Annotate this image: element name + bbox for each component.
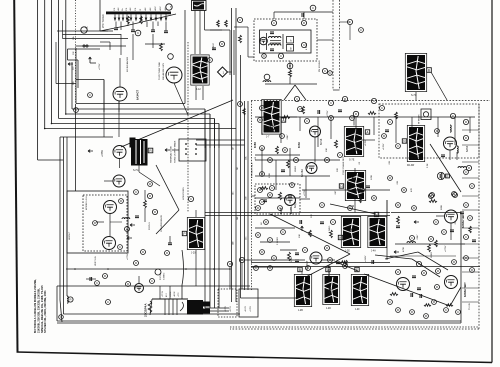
svg-text:R: R: [397, 308, 399, 312]
label text: [455, 221, 457, 225]
value circle: [118, 245, 123, 250]
svg-text:C: C: [273, 256, 275, 260]
value circle: [342, 96, 347, 101]
svg-text:TS-915: TS-915: [469, 302, 471, 310]
svg-text:TERMINAL GUIDE: TERMINAL GUIDE: [170, 145, 173, 163]
svg-text:R: R: [142, 250, 144, 254]
svg-text:HORIZ OUTPUT TRANS: HORIZ OUTPUT TRANS: [174, 140, 177, 163]
sound output transformer T4: [405, 53, 426, 97]
svg-text:C: C: [389, 120, 391, 124]
wire mid h: [205, 213, 390, 216]
vert text deflection: [183, 186, 185, 200]
svg-text:120K: 120K: [371, 174, 373, 180]
svg-text:C: C: [107, 300, 109, 304]
terminal labels: [225, 305, 252, 312]
value circle: [270, 126, 275, 131]
label text: [389, 160, 391, 165]
wire top4: [205, 29, 223, 31]
value circle: [294, 158, 299, 163]
value circle: [134, 190, 139, 195]
cap C70: [135, 216, 172, 245]
tube V1 damper: [113, 87, 140, 101]
resistor R101: [217, 20, 220, 27]
tuner drop wires: [116, 22, 166, 32]
wire mid v2b: [240, 55, 242, 298]
value circle: [422, 271, 427, 276]
audio box outer: [67, 191, 128, 253]
sound out box: [255, 184, 300, 214]
wire top1: [230, 30, 234, 75]
wire top3: [248, 27, 254, 57]
value circle: [256, 206, 261, 211]
diag br2: [450, 287, 461, 306]
core lines: [270, 41, 281, 44]
wire bus v2: [44, 0, 46, 129]
svg-text:R: R: [344, 97, 346, 101]
svg-text:+135V: +135V: [383, 143, 385, 150]
tube V17 crt heater: [135, 284, 144, 293]
value circle: [434, 220, 439, 225]
tube V9 6AQ5: [285, 195, 298, 209]
vert text model: [86, 196, 88, 210]
value circle: [260, 200, 265, 205]
svg-text:120K: 120K: [269, 172, 271, 178]
wire hbus4: [52, 124, 220, 149]
svg-text:C: C: [349, 206, 351, 210]
svg-text:R: R: [259, 118, 261, 122]
svg-text:680K: 680K: [441, 204, 443, 210]
wire yoke bus: [241, 260, 297, 298]
IF transformer T3: [191, 55, 209, 91]
label text: [95, 256, 97, 266]
terminal box: [298, 267, 302, 272]
wire vert right2: [386, 200, 388, 212]
label text: [365, 255, 367, 262]
value circle: [416, 261, 421, 266]
value circle: [301, 20, 306, 25]
coil L20: [67, 296, 68, 303]
vert text horiz trans: [170, 140, 177, 163]
value circle: [322, 68, 327, 73]
value circle: [328, 71, 333, 76]
wire y34: [63, 34, 122, 36]
tube V14: [397, 278, 410, 291]
coil L12: [407, 242, 415, 243]
svg-text:C: C: [339, 153, 341, 157]
svg-text:C: C: [435, 220, 437, 224]
svg-text:C: C: [445, 308, 447, 312]
terminal box B: [427, 68, 432, 73]
transformer T6: [344, 126, 363, 161]
wire bus v3: [51, 0, 53, 124]
resistor R61: [390, 293, 398, 296]
label text: [291, 256, 293, 262]
svg-text:+135V: +135V: [250, 305, 252, 312]
wire drop: [355, 117, 357, 151]
misc res: [330, 216, 400, 268]
value circle: [148, 182, 153, 187]
value circle: [388, 300, 393, 305]
value circle: [134, 261, 139, 266]
svg-text:470K: 470K: [264, 124, 266, 130]
page border right: [491, 0, 493, 363]
value circle: [396, 308, 401, 313]
vert text models: [469, 302, 471, 310]
svg-text:S-7E: S-7E: [349, 159, 355, 162]
wire h170: [255, 175, 330, 177]
value circle: [464, 203, 469, 208]
svg-text:R: R: [166, 251, 168, 255]
value circle: [464, 235, 469, 240]
value circle: [278, 206, 283, 211]
width coil T15: [130, 138, 148, 173]
svg-text:C: C: [280, 54, 282, 58]
svg-text:10K: 10K: [299, 234, 301, 238]
bus row y112: [255, 116, 475, 118]
value circle: [435, 285, 440, 290]
wire left low: [44, 129, 46, 181]
diag br1: [336, 262, 450, 306]
value circle: [328, 100, 333, 105]
svg-text:P: P: [183, 232, 185, 236]
wire drop: [330, 117, 332, 139]
svg-text:3 PRONG INLK: 3 PRONG INLK: [252, 162, 254, 178]
svg-text:C: C: [329, 71, 331, 75]
tube V4 sound: [260, 37, 268, 45]
value circle: [88, 93, 93, 98]
crt pin labels: [162, 290, 180, 297]
small box: [421, 109, 431, 120]
label text: [365, 139, 367, 146]
svg-text:C: C: [137, 31, 139, 35]
svg-text:J-20: J-20: [191, 253, 196, 255]
svg-text:241: 241: [237, 167, 239, 170]
tuner box: [100, 0, 108, 31]
svg-text:4.5 MC: 4.5 MC: [306, 43, 308, 50]
wire sync: [255, 155, 300, 242]
vert text FM: [319, 60, 321, 72]
wire stub right: [462, 257, 479, 259]
resistor R40: [279, 192, 282, 200]
svg-text:21CBP4A: 21CBP4A: [144, 303, 148, 317]
tube V8 6AB4: [444, 137, 470, 152]
svg-text:SPECIAL, DELUXE 10L, 21D8, TS-: SPECIAL, DELUXE 10L, 21D8, TS-915: [40, 285, 44, 333]
svg-text:6CS6: 6CS6: [299, 142, 301, 148]
value circle: [463, 135, 468, 140]
inner solid box corner: [57, 213, 461, 324]
svg-text:R: R: [389, 176, 391, 180]
svg-text:C: C: [332, 220, 334, 224]
wire top2: [210, 27, 248, 30]
svg-text:6AW8A VERT: 6AW8A VERT: [464, 282, 467, 297]
value circle: [350, 116, 355, 121]
svg-text:+27.5V: +27.5V: [162, 290, 164, 297]
transformer T8 vert out: [345, 170, 365, 208]
label text: [255, 156, 257, 160]
value circle: [456, 310, 461, 315]
crt section box: [57, 286, 250, 321]
value circle: [294, 96, 299, 101]
resistor R31: [282, 116, 290, 119]
wire crt drops: [205, 308, 229, 311]
value circle: [306, 266, 311, 271]
value circle: [301, 42, 306, 47]
svg-text:+410V: +410V: [245, 305, 247, 312]
arrow gnd: [127, 224, 135, 240]
cap C33: [338, 110, 342, 112]
svg-text:J-2F: J-2F: [355, 309, 360, 311]
vert text crt type: [144, 303, 148, 317]
page border left: [14, 0, 17, 352]
diag br4: [375, 255, 440, 277]
value circle: [452, 192, 457, 197]
svg-text:R: R: [265, 220, 267, 224]
svg-text:C: C: [452, 114, 454, 118]
wire h267: [251, 266, 296, 268]
value circle: [396, 144, 401, 149]
svg-text:2.2MEG: 2.2MEG: [277, 237, 279, 245]
wire bus dotted: [75, 0, 77, 104]
value circle: [283, 148, 288, 153]
wire T8: [354, 168, 356, 213]
label 6au8: [290, 206, 293, 214]
svg-text:6CB6: 6CB6: [255, 141, 257, 148]
quadrature coil L5: [267, 33, 284, 50]
svg-text:C: C: [60, 315, 62, 319]
svg-text:6AW8A VERT: 6AW8A VERT: [462, 213, 465, 228]
svg-text:R: R: [465, 136, 467, 140]
wire v drops2: [262, 148, 306, 198]
svg-text:150K: 150K: [291, 256, 293, 262]
wire cluster: [145, 190, 170, 243]
value circle: [260, 146, 265, 151]
wire mid dashed: [251, 101, 253, 290]
vert text wtrans: [418, 114, 421, 124]
cap C90b: [263, 170, 292, 202]
tube V7: [301, 163, 317, 178]
svg-text:.0047: .0047: [287, 134, 289, 140]
svg-text:R2-3W: R2-3W: [407, 165, 415, 167]
svg-text:R: R: [257, 206, 259, 210]
wire stub right: [462, 227, 479, 229]
svg-text:C: C: [282, 230, 284, 234]
wire hbus6: [38, 159, 63, 161]
label text: [99, 63, 101, 70]
svg-text:C: C: [418, 262, 420, 266]
svg-text:+275V: +275V: [101, 150, 104, 157]
svg-text:R: R: [430, 237, 432, 241]
svg-text:C: C: [263, 54, 265, 58]
svg-text:VERT LIN: VERT LIN: [95, 256, 97, 266]
svg-text:W TRANS: W TRANS: [418, 114, 421, 124]
value circle: [68, 297, 73, 302]
value circle: [270, 186, 275, 191]
value circle: [463, 119, 468, 124]
value circle: [280, 134, 285, 139]
tuner coil contacts: [114, 14, 168, 21]
value circle: [464, 170, 469, 175]
svg-text:C: C: [151, 279, 153, 283]
sound IF inner box: [260, 30, 312, 53]
value circle: [402, 188, 407, 193]
svg-text:R: R: [303, 21, 305, 25]
resistor R91: [287, 160, 290, 168]
value circle: [264, 220, 269, 225]
wire stub right: [462, 177, 479, 179]
misc arrows: [301, 221, 419, 293]
tube V16: [103, 237, 116, 250]
svg-text:C: C: [209, 58, 211, 62]
label text: [335, 190, 337, 195]
cap C22: [302, 13, 304, 17]
svg-text:R: R: [413, 206, 415, 210]
svg-text:C: C: [330, 101, 332, 105]
svg-text:B: B: [428, 68, 430, 72]
cap C90: [86, 277, 96, 281]
svg-text:R: R: [269, 193, 271, 197]
misc res2: [424, 226, 471, 306]
svg-text:R: R: [149, 194, 151, 198]
value circle: [272, 256, 277, 261]
svg-text:22K: 22K: [311, 214, 313, 218]
terminal box: [339, 184, 343, 189]
wire br row: [395, 243, 465, 245]
resistor R20: [289, 70, 292, 77]
wire T6: [354, 117, 375, 140]
svg-text:J-2D: J-2D: [326, 308, 331, 310]
svg-text:C: C: [135, 190, 137, 194]
value circle: [432, 300, 437, 305]
flag diamond 1: [218, 67, 232, 77]
circle R variable: [437, 172, 449, 179]
focus control: [155, 269, 166, 280]
page border bottom: [17, 352, 493, 363]
wire drop: [373, 117, 375, 135]
misc caps2: [420, 212, 476, 298]
terminal box: [326, 267, 330, 272]
wire drop: [437, 117, 439, 137]
svg-text:+275V: +275V: [99, 63, 101, 70]
terminal box: [281, 118, 285, 123]
label text: [417, 234, 419, 240]
resistor R33: [302, 106, 305, 114]
resistor R60: [428, 244, 431, 252]
wire sound right: [317, 40, 340, 90]
value circle: [310, 5, 316, 11]
sound IF dashed box: [254, 19, 317, 61]
crt neck top: [150, 299, 188, 315]
wire mid v2: [235, 8, 237, 302]
svg-text:6AU8A: 6AU8A: [290, 206, 293, 214]
wire stub right: [462, 129, 479, 131]
junction dots: [44, 113, 67, 129]
value circle: [382, 134, 387, 139]
title text line2: [36, 288, 40, 333]
misc caps3: [300, 178, 370, 224]
value circle: [305, 119, 310, 124]
title text line1: [33, 279, 37, 333]
svg-text:47K: 47K: [411, 188, 413, 192]
terminal box solid: [239, 289, 258, 317]
value circle: [126, 282, 131, 287]
wire mid v7: [214, 119, 216, 309]
label text: [269, 172, 271, 178]
value circle: [147, 193, 152, 198]
wire hbus5: [45, 128, 236, 130]
svg-text:HEIGHT: HEIGHT: [69, 231, 71, 240]
svg-text:FOCUS: FOCUS: [160, 272, 162, 280]
wire stub right: [462, 243, 479, 245]
svg-text:C: C: [190, 197, 192, 201]
label text: [213, 43, 215, 50]
diagonal to yoke: [330, 204, 376, 214]
value circle: [268, 266, 273, 271]
svg-text:C: C: [324, 69, 326, 73]
resistor R70: [144, 200, 147, 208]
wire tuner down: [121, 34, 153, 60]
resistor R34: [335, 140, 338, 148]
svg-text:6CS6: 6CS6: [320, 138, 323, 145]
svg-text:+27V: +27V: [178, 292, 180, 297]
wire sound right dashed: [333, 0, 340, 90]
trim cap boxes: [287, 37, 294, 52]
svg-text:1MEG: 1MEG: [431, 252, 433, 258]
svg-text:6AQ5: 6AQ5: [280, 207, 283, 214]
coil L6: [263, 74, 271, 82]
svg-text:R: R: [383, 134, 385, 138]
value circle: [74, 108, 79, 113]
svg-text:R: R: [361, 188, 363, 192]
svg-text:M: M: [375, 213, 378, 217]
svg-text:R: R: [154, 210, 156, 214]
wire lbus4: [75, 104, 77, 191]
svg-text:C: C: [299, 107, 301, 111]
wire mid v3: [244, 101, 246, 290]
svg-text:2ND ANODE 12KV: 2ND ANODE 12KV: [162, 62, 165, 80]
tuner terminal strip: [106, 12, 171, 15]
value circle: [150, 279, 155, 284]
cap C60: [412, 276, 421, 290]
wire hbus2: [66, 114, 210, 148]
wire bus v5: [65, 0, 67, 114]
svg-text:R: R: [411, 310, 413, 314]
resistor R5: [160, 43, 163, 51]
vert text 3prong: [252, 162, 254, 178]
resistor R30: [368, 112, 376, 115]
wire hbus1: [72, 62, 205, 148]
resistor R102: [225, 20, 228, 27]
diag wedge mid: [270, 214, 350, 280]
wire drop: [261, 117, 263, 135]
svg-text:+275V: +275V: [230, 305, 232, 312]
label text: [261, 222, 263, 225]
dashed bottom: [230, 326, 479, 328]
value circle: [239, 257, 244, 262]
wire h244b: [390, 255, 456, 257]
wire mid v8: [218, 124, 220, 309]
svg-text:VHF TUNER: VHF TUNER: [102, 14, 105, 28]
vert text NO2ND: [126, 56, 129, 72]
svg-text:HORIZ: HORIZ: [213, 43, 215, 50]
label text: [411, 188, 413, 192]
value circle: [453, 193, 458, 198]
svg-text:B: B: [299, 268, 301, 272]
svg-text:C: C: [269, 238, 271, 242]
cap C31: [318, 110, 320, 114]
wire drop: [454, 117, 456, 145]
vert text convergence: [161, 214, 163, 232]
coil L15: [122, 218, 130, 219]
